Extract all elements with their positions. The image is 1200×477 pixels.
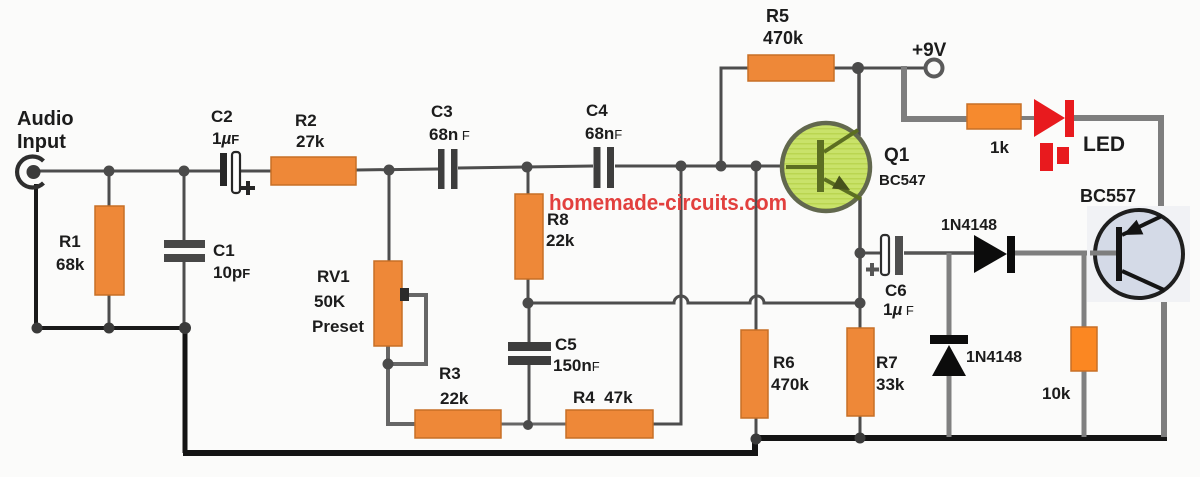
resistor 1k (LED series) [967,104,1021,129]
audio input jack J1 [17,156,43,187]
wire: R8 bottom lead to node row [527,278,530,304]
svg-text:C4: C4 [586,101,608,120]
svg-text:33k: 33k [876,375,905,394]
diode D2 1N4148 vertical [930,335,968,376]
resistor R4 47k [566,410,653,438]
svg-text:68nF: 68nF [585,124,622,143]
node: R5 junction on base line [716,161,727,172]
svg-text:BC547: BC547 [879,172,926,189]
wire: LED cathode to BC557 emitter [1073,118,1161,213]
wire: R7 top lead [859,303,862,329]
svg-text:R5: R5 [766,6,789,26]
svg-text:R7: R7 [876,353,898,372]
svg-text:C1: C1 [213,241,235,260]
capacitor C1 10pF [164,240,205,262]
svg-text:R4 47k: R4 47k [573,388,633,407]
wire: R8 top lead [527,167,530,195]
node: C5 bottom junction [523,420,533,430]
svg-text:LED: LED [1083,133,1125,156]
wire: C5 bottom lead [528,365,531,424]
wire: R5 right to supply node [834,67,858,70]
wire: C4 to Q1 base [615,165,786,168]
wire: 1k to LED anode [1021,116,1036,120]
svg-text:1k: 1k [990,138,1009,157]
wire: R5 left lead [721,68,748,165]
wire: C6 left lead [860,252,882,255]
node: ground bus left corner [32,323,43,334]
svg-text:10k: 10k [1042,384,1071,403]
svg-text:68k: 68k [56,255,85,274]
node: C1 top junction [179,166,190,177]
resistor R6 470k [741,330,768,418]
svg-text:BC557: BC557 [1080,186,1136,206]
wire: R1 bottom lead [108,294,111,328]
node: R2 output junction [384,165,395,176]
svg-text:+9V: +9V [912,40,947,61]
node: R8 bottom junction [523,298,534,309]
wire: C2 to R2 [240,170,271,173]
svg-text:Q1: Q1 [884,145,910,166]
svg-text:22k: 22k [546,231,575,250]
wire: R6 bottom lead [755,417,758,438]
wire: +9V thick feed to 1k [904,66,967,119]
svg-text:150nF: 150nF [553,356,600,375]
diode D1 1N4148 horizontal [974,235,1015,273]
capacitor C6 1uF electrolytic [866,235,903,276]
resistor R2 27k [271,157,356,185]
svg-text:Input: Input [17,131,66,153]
wire: R4 right to feedback riser [653,166,681,424]
wire: C5 top lead [528,303,531,344]
svg-text:R1: R1 [59,232,81,251]
node: R6 ground junction [751,434,762,445]
capacitor C4 68nF [594,147,615,188]
svg-text:Preset: Preset [312,317,364,336]
wire: bottom ground bus left segment [183,438,755,453]
wire: R7 bottom lead [859,415,862,438]
svg-text:Audio: Audio [17,108,74,130]
terminal +9V [926,60,943,77]
wire: C1 top lead [183,171,186,242]
wire: input jack down lead [34,184,38,328]
resistor R5 470k [748,55,834,81]
node: supply node above Q1 [852,62,864,74]
capacitor C3 68nF [438,149,458,189]
wire: Q1 emitter lead down to C6 node [858,198,862,303]
wire: D2 anode down to ground bus [947,374,952,437]
node: R7 ground junction [855,433,866,444]
svg-text:R3: R3 [439,364,461,383]
node: input jack to R1 junction [104,166,115,177]
preset RV1 50K [374,261,409,346]
node: R6 junction on base line [751,161,762,172]
node: C6 emitter junction [855,248,866,259]
svg-text:50K: 50K [314,292,346,311]
wire: lower-left ground run [36,326,185,330]
svg-text:1N4148: 1N4148 [966,349,1022,366]
svg-text:C6: C6 [885,281,907,300]
svg-text:1µF: 1µF [212,129,239,148]
capacitor C5 150nF [508,342,551,365]
wire: RV1 bottom to R3 [388,346,415,424]
wire: D1 cathode to BC557 base [1015,251,1118,256]
wire: R6 riser to base line [755,166,758,331]
wire: mid row R8 node to R7 node with hops [528,296,860,303]
svg-text:C3: C3 [431,102,453,121]
svg-text:C2: C2 [211,107,233,126]
wire: 10k bottom to ground bus [1082,370,1087,437]
wire: C3 to C4 [458,166,593,168]
resistor R8 22k [515,194,543,279]
svg-text:homemade-circuits.com: homemade-circuits.com [549,190,787,215]
transistor Q1 BC547 [782,123,870,211]
wire: BC557 base node down to 10k [1082,253,1087,328]
svg-text:R6: R6 [773,353,795,372]
node: R7 top junction [855,298,866,309]
wire: R3 to C5 node to R4 [501,423,566,426]
wire: R2 to C3 [356,169,438,170]
wire: C1 bottom lead [183,261,186,328]
wire: main signal line input to C2 [40,170,220,173]
wire: supply node to +9V terminal [858,67,926,70]
transistor Q2 BC557 [1087,206,1190,302]
svg-text:RV1: RV1 [317,267,350,286]
wire: drop to D2 vertical diode [947,253,952,338]
node: C1 bottom junction [179,322,191,334]
svg-text:1µ F: 1µ F [883,300,914,319]
resistor R1 68k [95,206,124,295]
svg-text:22k: 22k [440,389,469,408]
wire: C6 right lead to D1 anode [904,251,974,255]
svg-text:R2: R2 [295,111,317,130]
node: R1 bottom junction [104,323,115,334]
svg-text:470k: 470k [771,375,809,394]
wire: RV1 wiper arm [390,295,426,364]
svg-text:470k: 470k [763,28,804,48]
wire: Q1 collector lead [857,68,861,136]
svg-text:C5: C5 [555,335,577,354]
resistor R7 33k [847,328,874,416]
wire: ground down-drop from C1 node [183,330,188,453]
capacitor C2 1uF electrolytic [220,152,255,195]
resistor 10k (base pulldown) [1071,327,1097,371]
node: RV1 bottom junction [383,359,394,370]
LED D3 [1034,99,1074,171]
node: R4 feedback junction on base line [676,161,687,172]
svg-text:1N4148: 1N4148 [941,217,997,234]
wire: node to RV1 top [388,170,391,262]
node: C3-C4-R8 junction [522,162,533,173]
wire: BC557 collector down to ground bus [1161,288,1167,437]
wire: R1 top lead [108,171,111,207]
wire: bottom ground bus right segment [755,435,1167,441]
svg-text:10pF: 10pF [213,263,250,282]
svg-text:68n F: 68n F [429,125,470,144]
svg-text:27k: 27k [296,132,325,151]
resistor R3 22k [415,410,501,438]
